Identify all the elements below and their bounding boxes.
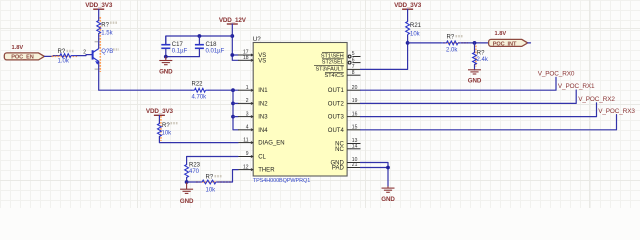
resistor R? 2.4k [473,53,477,65]
svg-text:21: 21 [352,162,358,168]
wire GND pin to PAD vertical [361,163,389,187]
port POC_INT [489,39,528,47]
svg-text:1: 1 [246,85,249,91]
power VDD_12V [219,17,247,24]
resistor R23 470 [185,165,189,178]
resistor R22 4.70k [191,88,209,92]
svg-text:OUT2: OUT2 [328,101,345,107]
IC left pin numbers [243,50,249,171]
error squiggle R? 2.0k [443,42,468,44]
svg-text:1.0k: 1.0k [58,58,70,64]
svg-text:11: 11 [243,137,248,143]
wire cap bottom rail [166,56,200,58]
transistor Q?B pin ticks [95,42,99,69]
svg-text:3: 3 [246,111,249,117]
junction R23/R10k/GND [185,180,189,184]
capacitor C17 0.1uF [161,36,170,57]
resistor R? 2.0k [441,41,462,45]
junction C18 top [198,34,202,38]
svg-text:IN4: IN4 [258,128,268,134]
svg-text:POC_INT: POC_INT [493,41,517,47]
svg-text:20: 20 [352,85,358,91]
wire VDD_12V to VS pins [232,24,238,60]
wire GND junction to R? 10k [187,181,199,183]
wire VDD_3V3 to R? 10k [158,115,160,123]
svg-text:12: 12 [243,164,249,170]
wire POC_EN to R? 1.0k [45,55,61,58]
svg-text:14: 14 [352,144,358,150]
wire ST3/FAULT to R21 junction [361,43,408,70]
power VDD_3V3 (top left) [85,2,113,9]
wire R22 to IN1 [209,89,238,91]
overlines on ST pin names [314,53,344,73]
svg-text:8: 8 [352,70,355,76]
resistor R? 10k (THER) [199,180,219,184]
error squiggle R? 10k (DIAG_EN) [160,116,162,141]
svg-text:10k: 10k [162,131,173,137]
svg-text:19: 19 [352,98,358,104]
svg-text:C18: C18 [206,42,218,48]
svg-text:R22: R22 [192,82,204,88]
svg-text:POC_EN: POC_EN [11,55,33,61]
wire VDD_3V3 to R21 [407,9,409,21]
wire 2.4k to GND [474,65,476,70]
svg-text:VDD_3V3: VDD_3V3 [146,108,174,115]
wire OUT net V_POC_RX0 [361,77,557,90]
svg-text:R?: R? [58,49,66,55]
ground GND (R23) [180,182,193,193]
wire OUT net V_POC_RX3 [361,115,617,130]
svg-text:OUT3: OUT3 [328,115,345,121]
svg-text:R?: R? [477,50,485,56]
svg-text:4.70k: 4.70k [192,95,208,101]
svg-text:OUT4: OUT4 [328,128,345,134]
svg-text:4: 4 [246,125,249,131]
junction caps GND [164,55,168,59]
IC left pin stubs [238,54,253,171]
resistor R? 1.0k [60,54,77,58]
svg-text:C17: C17 [172,42,184,48]
svg-text:IN3: IN3 [258,115,268,121]
svg-text:R?: R? [162,123,170,129]
wire junction to R? 2.4k [474,43,476,53]
IC U? body TPS4H000BQPWPRQ1 [253,43,347,177]
junction 12V/caps [230,34,234,38]
svg-text:0.01µF: 0.01µF [206,49,225,55]
svg-text:VDD_12V: VDD_12V [219,17,247,24]
ground GND (caps) [159,57,172,65]
svg-text:0.1µF: 0.1µF [172,49,188,55]
resistor R21 10k [406,22,410,43]
port POC_EN [4,53,44,61]
svg-text:R?: R? [101,23,109,29]
wire to VS pin 17 [232,54,238,56]
junction R21/ST3 [406,41,410,45]
wire R? 10k to THER pin [219,170,238,182]
power VDD_3V3 (right) [394,2,422,9]
svg-text:U?: U? [253,36,261,43]
svg-text:R21: R21 [410,23,422,29]
error squiggle R? 1.0k [52,55,78,57]
error squiggle R? 10k (THER) [196,181,232,183]
wire Q? emitter to IN1 row [99,61,191,90]
wire to IN3 [233,116,238,118]
svg-text:1.5k: 1.5k [101,30,113,36]
svg-text:OUT1: OUT1 [328,88,345,94]
transistor Q?B (NPN) [93,49,100,65]
wire CL pin to R23 [187,157,238,165]
svg-text:1.8V: 1.8V [495,31,507,37]
junction GND/PAD [386,166,390,170]
error squiggle R? 2.4k [475,46,477,68]
IC right pin names [315,53,344,171]
wire stub right of POC_INT [528,42,531,44]
svg-text:IN1: IN1 [258,88,268,94]
wire R23 to GND junction [186,178,188,183]
svg-text:ST3\FAULT: ST3\FAULT [315,66,344,72]
IC right pin bubbles (ST1,ST2) [348,55,351,64]
svg-text:470: 470 [189,169,200,175]
svg-text:R23: R23 [189,163,201,169]
svg-text:VDD_3V3: VDD_3V3 [85,2,113,9]
svg-text:2: 2 [246,98,249,104]
junction IN3 [231,115,235,119]
svg-text:ST2\SEL: ST2\SEL [322,60,344,66]
ground GND (2.4k) [468,70,481,74]
wire cap top rail [166,36,233,44]
junction 2.4k tap [473,41,477,45]
svg-text:1.8V: 1.8V [12,45,24,51]
svg-text:2.0k: 2.0k [446,48,458,54]
svg-text:Q?B: Q?B [101,49,113,55]
svg-text:16: 16 [352,111,358,117]
wire R21 junction to R? 2.0k [408,42,441,44]
svg-text:R?: R? [447,34,455,40]
wire VDD_3V3 to R? 1.5k [98,9,100,20]
wire PAD pin [361,167,389,169]
IC right pin stubs [347,57,360,168]
svg-text:CL: CL [258,155,266,161]
svg-text:10k: 10k [410,31,421,37]
svg-text:GND: GND [159,69,173,76]
svg-text:IN2: IN2 [258,101,268,107]
svg-text:9: 9 [246,151,249,157]
svg-text:DIAG_EN: DIAG_EN [258,141,284,147]
junction IN1 bus [231,88,235,92]
wire R? 1.5k to Q? collector [98,34,100,49]
svg-text:2.4k: 2.4k [477,57,489,63]
power VDD_3V3 (DIAG_EN) [146,108,174,115]
svg-text:15: 15 [352,125,358,131]
IC right pin numbers [352,51,358,168]
wire OUT net V_POC_RX2 [361,103,597,117]
svg-text:TPS4H000BQPWPRQ1: TPS4H000BQPWPRQ1 [253,178,310,184]
error squiggle Q?/R? 1.5k [99,17,101,72]
svg-text:R?: R? [206,175,214,181]
resistor R? 10k (DIAG_EN) [158,124,162,137]
svg-text:GND: GND [468,77,482,84]
svg-text:V_POC_RX3: V_POC_RX3 [598,108,635,115]
svg-text:10k: 10k [206,188,217,194]
svg-text:5: 5 [352,51,355,57]
capacitor C18 0.01uF [195,36,204,57]
svg-text:NC: NC [335,147,344,153]
svg-text:V_POC_RX1: V_POC_RX1 [558,83,595,90]
wire 2.0k to POC_INT [462,42,488,44]
wire IN bus vertical [233,90,238,130]
ground GND (IC) [382,186,395,192]
svg-text:ST4\CS: ST4\CS [325,73,345,79]
svg-text:THER: THER [258,168,275,174]
svg-text:2: 2 [83,50,86,56]
wire to IN2 [233,102,238,104]
svg-text:VDD_3V3: VDD_3V3 [394,2,422,9]
svg-text:V_POC_RX0: V_POC_RX0 [538,71,575,78]
svg-text:PAD: PAD [332,166,345,172]
resistor R? 1.5k [97,21,101,34]
svg-text:18: 18 [243,55,249,61]
junction VS17 [230,53,234,57]
IC left pin names [258,53,284,174]
wire R? 1.0k to Q? base [77,55,92,56]
svg-text:GND: GND [381,196,395,203]
svg-text:VS: VS [258,59,266,65]
svg-text:GND: GND [180,198,194,205]
svg-text:6: 6 [352,57,355,63]
wire OUT net V_POC_RX1 [361,90,577,103]
junction IN2 [231,102,235,106]
wire R? 10k to DIAG_EN pin [159,137,238,143]
svg-text:V_POC_RX2: V_POC_RX2 [578,96,615,103]
